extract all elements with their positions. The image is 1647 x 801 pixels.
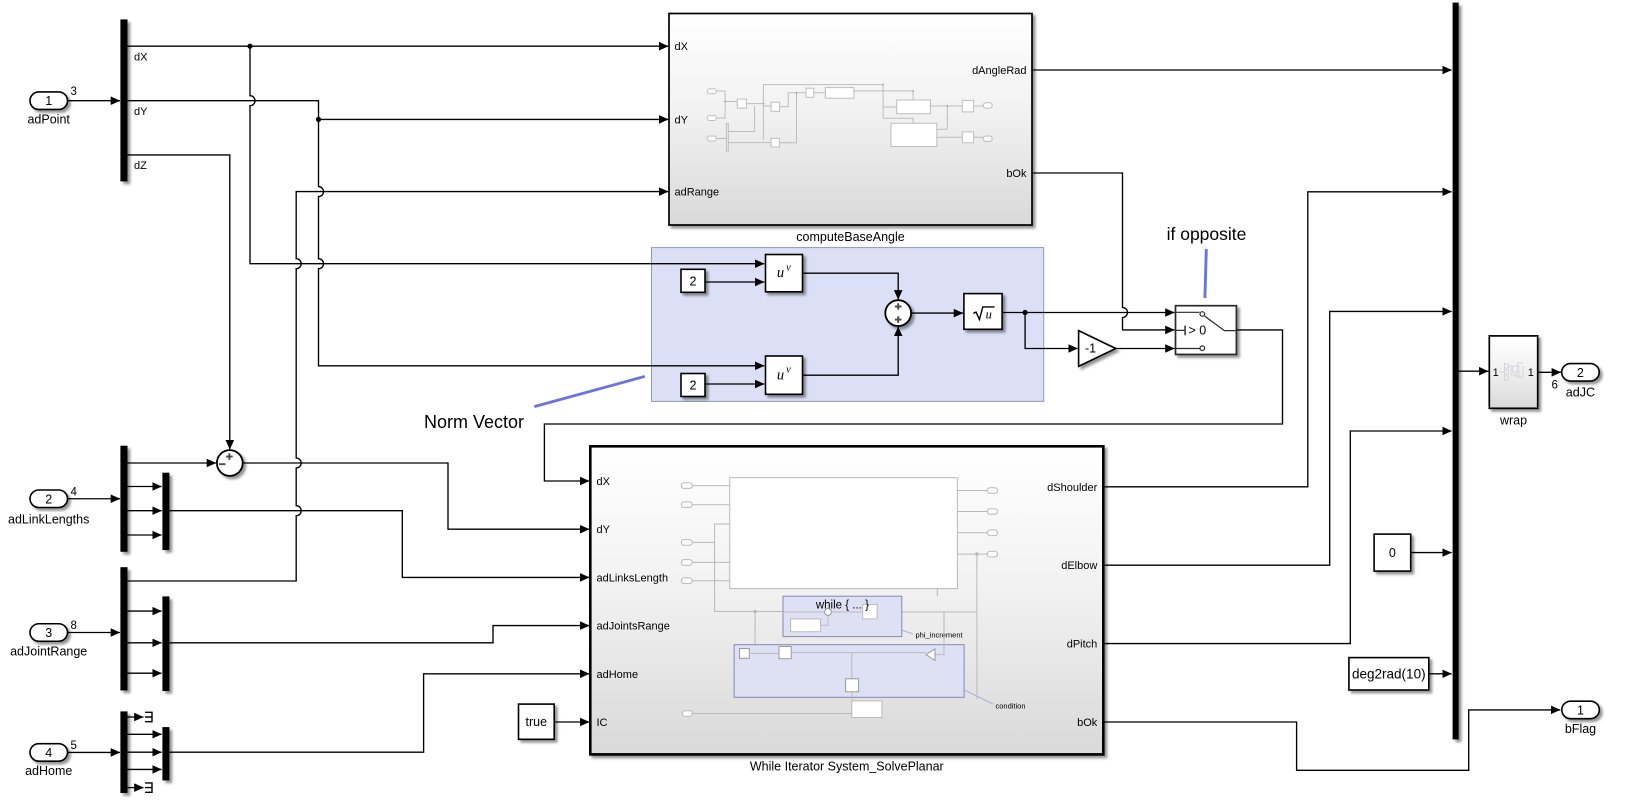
svg-text:2: 2	[690, 379, 697, 393]
svg-text:adLinksLength: adLinksLength	[597, 572, 669, 584]
svg-text:condition: condition	[996, 702, 1026, 711]
wire dPitch to mux	[1103, 431, 1451, 644]
wire true to While IC	[554, 721, 589, 723]
svg-text:dPitch: dPitch	[1067, 639, 1098, 651]
wire While bOk to bFlag	[1103, 710, 1560, 770]
while iterator inner box	[783, 596, 902, 636]
wire mux to wrap	[1459, 370, 1489, 372]
wire adJointRange to demux	[68, 632, 121, 634]
svg-text:wrap: wrap	[1499, 414, 1527, 428]
svg-text:1: 1	[1528, 367, 1534, 379]
svg-text:dY: dY	[134, 106, 148, 118]
svg-text:v: v	[786, 262, 791, 273]
svg-text:dZ: dZ	[134, 160, 147, 172]
wire adHome to demux	[68, 751, 121, 753]
wire demux4 out2	[128, 733, 162, 735]
label condition	[964, 690, 993, 704]
wire demux4 out3	[128, 751, 162, 753]
wire demux4 out1 terminator	[128, 716, 144, 718]
math block u^v (lower)	[766, 356, 803, 394]
svg-text:adJointRange: adJointRange	[10, 644, 87, 658]
wire const2a to u^v	[705, 281, 764, 283]
constant 0	[1374, 534, 1411, 571]
wire dX to computeBaseAngle	[128, 45, 669, 47]
terminator glyph bottom	[145, 782, 152, 793]
svg-text:1: 1	[45, 94, 52, 108]
svg-text:-1: -1	[1085, 342, 1096, 356]
wire dY branch to computeBaseAngle	[319, 118, 669, 120]
mux bar (right)	[1453, 3, 1459, 740]
svg-text:Norm Vector: Norm Vector	[424, 412, 524, 432]
svg-text:while { ... }: while { ... }	[815, 600, 869, 612]
wire deg2rad to mux	[1429, 673, 1452, 675]
wire mux M4 output to While adHome	[169, 674, 589, 752]
small rect below condition	[852, 701, 882, 718]
svg-text:4: 4	[45, 746, 52, 760]
mux M2	[162, 473, 169, 550]
svg-text:3: 3	[45, 626, 52, 640]
constant 2 (upper)	[681, 269, 705, 292]
wire sum to sqrt	[911, 312, 963, 314]
svg-text:v: v	[786, 365, 791, 376]
svg-text:4: 4	[71, 486, 78, 498]
gain -1	[1079, 331, 1116, 367]
svg-text:While Iterator System_SolvePla: While Iterator System_SolvePlanar	[750, 760, 944, 774]
svg-text:2: 2	[690, 274, 697, 288]
wire dY right and down (hops) to lower u^v	[128, 101, 765, 366]
svg-text:dAngleRad: dAngleRad	[972, 65, 1026, 77]
constant deg2rad(10)	[1349, 658, 1429, 690]
While interior thumbnail	[681, 478, 997, 717]
svg-text:dY: dY	[675, 114, 689, 126]
wire u^v lower to sum	[803, 327, 899, 375]
svg-text:2: 2	[1577, 366, 1584, 380]
svg-text:bOk: bOk	[1006, 168, 1027, 180]
svg-text:dX: dX	[134, 51, 148, 63]
svg-text:bOk: bOk	[1077, 717, 1098, 729]
annotation leader line	[1205, 249, 1206, 298]
svg-text:adJC: adJC	[1566, 386, 1595, 400]
svg-text:u: u	[986, 308, 992, 322]
wire sqrt branch to gain	[1025, 313, 1078, 349]
label phi_increment	[902, 630, 913, 634]
svg-text:IC: IC	[597, 717, 608, 729]
wire dElbow to mux	[1103, 311, 1451, 565]
wire demux3 out4	[128, 672, 162, 674]
wire sum output to While dY	[243, 463, 589, 529]
svg-text:phi_increment: phi_increment	[916, 631, 964, 640]
inport 1 adPoint	[27, 92, 70, 127]
wire adLinkLengths to demux	[68, 498, 121, 500]
svg-text:adPoint: adPoint	[27, 113, 70, 127]
svg-text:true: true	[526, 715, 548, 729]
wire dShoulder to mux	[1103, 192, 1451, 487]
wire dZ down to sum	[128, 155, 230, 449]
svg-text:1: 1	[1493, 367, 1499, 379]
wire dX branch down to u^v (hops over dY)	[250, 46, 764, 264]
wire joint1 up to computeBaseAngle adRange (riser hops over crossing lines)	[128, 192, 669, 581]
node dX branch	[247, 44, 252, 49]
svg-text:bFlag: bFlag	[1565, 722, 1596, 736]
sum block (dZ - link1)	[217, 450, 243, 476]
svg-text:adLinkLengths: adLinkLengths	[8, 513, 89, 527]
wire demux2 out2	[128, 486, 162, 488]
demux D3 adJointRange	[120, 567, 127, 690]
wire demux4 out5 terminator	[128, 787, 144, 789]
wire dAngleRad to mux	[1032, 69, 1452, 71]
svg-text:deg2rad(10): deg2rad(10)	[1352, 666, 1426, 681]
sqrt block	[964, 294, 1002, 330]
wire demux4 out4	[128, 768, 162, 770]
svg-text:6: 6	[1552, 380, 1558, 392]
svg-text:adJointsRange: adJointsRange	[597, 621, 670, 633]
outport 1 bFlag	[1562, 701, 1600, 736]
svg-text:3: 3	[71, 86, 77, 98]
svg-text:u: u	[777, 367, 784, 383]
inport 2 adLinkLengths	[8, 490, 89, 527]
demux D2 adLinkLengths	[120, 446, 127, 552]
svg-text:dX: dX	[675, 41, 689, 53]
svg-text:dShoulder: dShoulder	[1047, 482, 1097, 494]
node dY branch	[316, 117, 321, 122]
wire computeBaseAngle bOk to switch control (hops over switch input1 wire)	[1032, 173, 1175, 330]
svg-text:> 0: > 0	[1189, 324, 1207, 338]
svg-text:adRange: adRange	[675, 187, 720, 199]
switch block	[1176, 306, 1237, 355]
svg-text:2: 2	[45, 492, 52, 506]
wire const 0 to mux	[1411, 552, 1452, 554]
wire const2b to u^v	[705, 383, 764, 385]
constant 2 (lower)	[681, 374, 705, 397]
math block u^v (upper)	[766, 255, 803, 292]
condition inner box	[734, 612, 964, 701]
wire mux M2 output to While adLinksLength	[169, 511, 589, 578]
wire gain to switch input3	[1116, 348, 1175, 350]
mux M4	[162, 727, 169, 780]
subsystem computeBaseAngle	[669, 14, 1032, 226]
wire demux2 out4	[128, 534, 162, 536]
node sqrt branch	[1023, 310, 1028, 315]
svg-text:adHome: adHome	[597, 669, 639, 681]
svg-text:0: 0	[1389, 546, 1396, 560]
constant true	[519, 704, 555, 739]
wire demux3 out2	[128, 610, 162, 612]
outport 2 adJC	[1562, 364, 1600, 400]
svg-text:u: u	[777, 265, 784, 281]
wire mux M3 output to While adJointsRange	[169, 626, 589, 643]
wire adPoint to demux	[68, 100, 121, 102]
svg-text:dElbow: dElbow	[1061, 560, 1097, 572]
svg-text:dY: dY	[597, 524, 611, 536]
demux D4 adHome	[120, 711, 127, 793]
subsystem wrap	[1489, 336, 1537, 408]
wire demux3 out3	[128, 642, 162, 644]
svg-text:5: 5	[71, 740, 77, 752]
inport 4 adHome	[25, 744, 72, 779]
svg-text:computeBaseAngle: computeBaseAngle	[796, 230, 904, 244]
svg-text:8: 8	[71, 620, 77, 632]
wire sqrt to switch input1	[1002, 312, 1174, 314]
svg-text:if opposite: if opposite	[1167, 224, 1247, 244]
wire u^v upper to sum	[803, 273, 899, 299]
inport 3 adJointRange	[10, 624, 87, 659]
wire wrap to adJC	[1538, 371, 1561, 373]
svg-text:dX: dX	[597, 476, 611, 488]
annotation leader line	[534, 376, 645, 406]
wire demux2 out3	[128, 510, 162, 512]
subsystem While Iterator System_SolvePlanar	[590, 446, 1103, 754]
demux D1 adPoint	[120, 19, 127, 181]
terminator glyph top	[145, 712, 152, 723]
sum block (norm)	[885, 300, 911, 326]
wire link1 to sum	[128, 462, 217, 464]
wire switch output to While dX	[544, 330, 1282, 481]
area Norm Vector	[652, 248, 1044, 402]
computeBaseAngle interior thumbnail	[707, 84, 992, 151]
svg-text:1: 1	[1577, 703, 1584, 717]
mux M3	[162, 596, 169, 691]
svg-text:adHome: adHome	[25, 764, 72, 778]
